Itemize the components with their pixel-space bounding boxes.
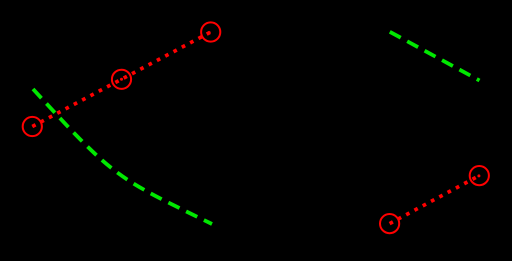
marker circle M1 on L1 <box>23 117 42 136</box>
center dot of M5 <box>477 174 480 177</box>
center dot of M4 <box>390 221 393 224</box>
red dotted line L1 (top-left) <box>32 32 210 127</box>
center dot of M2 <box>120 78 123 81</box>
green dashed curve (left) <box>33 89 212 224</box>
marker circle M3 on L1 <box>201 22 220 41</box>
green dashed line (top-right) <box>390 32 480 81</box>
red dotted line L2 (bottom-right) <box>390 176 480 224</box>
marker circle M4 on L2 <box>380 214 399 233</box>
marker circle M2 on L1 <box>112 70 131 89</box>
marker circle M5 on L2 <box>470 166 489 185</box>
center dot of M3 <box>208 31 211 34</box>
center dot of M1 <box>32 124 35 127</box>
